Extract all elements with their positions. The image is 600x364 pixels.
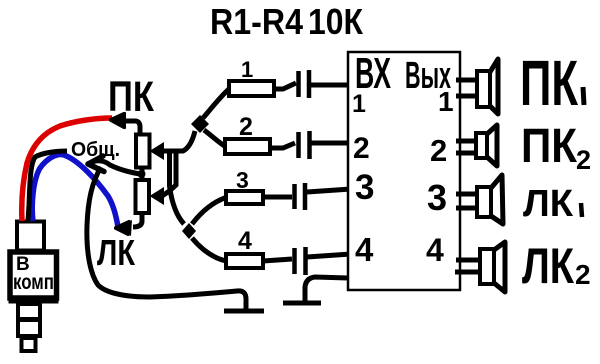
svg-text:2: 2 (430, 133, 447, 168)
svg-text:10К: 10К (308, 1, 364, 42)
upper wiper wire to junction A (162, 131, 195, 151)
wire junction A to R1 (203, 89, 229, 118)
svg-text:1: 1 (241, 57, 253, 82)
resistor R3 (226, 191, 263, 204)
speaker LS3 wires (456, 194, 477, 208)
svg-text:3: 3 (427, 177, 447, 218)
svg-text:4: 4 (355, 231, 374, 268)
wire from arrow to top of upper pot (123, 121, 140, 135)
svg-text:2: 2 (576, 145, 591, 175)
speaker LS4 wires (455, 260, 480, 272)
common black wire from connector (28, 151, 67, 221)
svg-text:2: 2 (353, 132, 370, 165)
arrow on blue wire end (ЛК) (116, 220, 132, 236)
red wire (right channel from computer) (22, 118, 112, 221)
wire R3 to C3 (263, 195, 292, 200)
speaker LS3 (477, 187, 491, 217)
junction node A (191, 115, 209, 133)
wire R4 to C4 (263, 259, 292, 261)
wire down from upper wiper line (vline1) (170, 149, 185, 224)
wire C4 to box input 4 (307, 254, 351, 257)
wire from bottom of lower pot to blue arrow (133, 213, 142, 227)
potentiometer R upper (136, 135, 150, 168)
capacitor C1 (296, 71, 301, 97)
wire C3 to box input 3 (307, 189, 351, 192)
potentiometer R lower (136, 180, 150, 213)
resistor R2 (225, 139, 270, 154)
wire C2 to box input 2 (311, 141, 351, 146)
lower wiper wire up (vline2) (162, 150, 176, 196)
speaker LS4 (480, 249, 494, 284)
amplifier box U1 (348, 52, 460, 290)
speaker LS2 wires (456, 141, 476, 153)
capacitor C4 (292, 248, 297, 274)
svg-text:ПК: ПК (520, 47, 579, 119)
lower pot wiper arrow (150, 187, 165, 205)
svg-text:ПК: ПК (108, 73, 155, 121)
ground bar 2 (283, 301, 321, 306)
svg-text:4: 4 (238, 227, 252, 255)
long ground wire from common node (87, 167, 246, 309)
svg-text:2: 2 (239, 113, 253, 141)
svg-text:1: 1 (352, 90, 366, 118)
wire R2 to C2 (270, 143, 295, 148)
junction node B (182, 223, 196, 239)
upper pot wiper arrow (150, 142, 165, 160)
blue wire (left channel from computer) (32, 155, 118, 227)
wire between pots (common) (140, 167, 145, 180)
svg-text:ЛК: ЛК (97, 232, 136, 273)
svg-text:ПК: ПК (521, 120, 578, 173)
speaker LS1 wires (456, 80, 477, 96)
svg-text:ЛК: ЛК (523, 183, 574, 225)
svg-text:комп: комп (13, 271, 54, 294)
junction dot between pots (common node) (138, 170, 146, 178)
wire junction A to R2 (204, 130, 226, 147)
capacitor C3 (292, 184, 297, 209)
wire junction B to R3 (192, 198, 226, 225)
ground bar 1 (224, 309, 264, 314)
svg-text:3: 3 (355, 168, 374, 207)
capacitor C2 (296, 132, 301, 158)
connector X1 "В комп" body (9, 222, 58, 352)
svg-text:R1-R4: R1-R4 (210, 1, 303, 42)
ground wire from amplifier box (305, 277, 348, 301)
resistor R1 (229, 81, 274, 96)
svg-text:2: 2 (575, 259, 591, 290)
svg-text:3: 3 (236, 167, 249, 193)
wire C1 to box input 1 (311, 83, 351, 88)
svg-text:1: 1 (438, 86, 454, 117)
wire junction B to R4 (192, 238, 226, 261)
svg-text:4: 4 (426, 232, 444, 268)
arrow to common node (88, 161, 140, 174)
arrow on red wire end (111, 112, 126, 129)
svg-text:ЛК: ЛК (522, 238, 574, 294)
resistor R4 (226, 254, 263, 268)
wire R1 to C1 (274, 83, 296, 89)
speaker LS2 (476, 133, 487, 158)
speaker LS1 (477, 71, 490, 107)
